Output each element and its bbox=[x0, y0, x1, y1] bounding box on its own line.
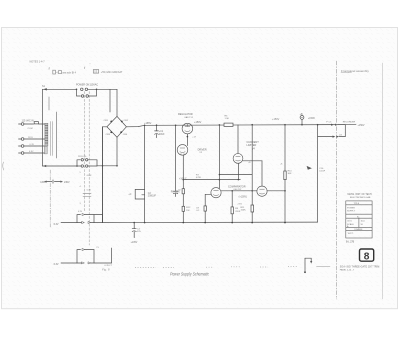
svg-text:0.1UF: 0.1UF bbox=[319, 171, 326, 173]
svg-text:6AS7 V1: 6AS7 V1 bbox=[185, 116, 194, 119]
driver tube V2 bbox=[177, 145, 188, 156]
svg-text:+150V: +150V bbox=[272, 118, 280, 121]
V2 cathode drop bbox=[182, 155, 184, 179]
wire arrow into S1 bbox=[43, 88, 47, 90]
label +150V bbox=[194, 121, 202, 124]
ganged switch dashed link bbox=[84, 92, 86, 212]
svg-text:CK D: CK D bbox=[347, 221, 352, 223]
node +165V bbox=[144, 122, 152, 125]
pilot group PL1 bbox=[54, 211, 103, 226]
svg-text:(+105V): (+105V) bbox=[239, 196, 247, 198]
connector J1 labels bbox=[22, 120, 35, 154]
label +150V right bbox=[272, 118, 280, 121]
switch S1 section C input bbox=[43, 165, 78, 167]
V4 plate to rail bbox=[237, 125, 239, 154]
sheet number 8 box bbox=[360, 249, 374, 263]
transformer T1 primary winding bbox=[45, 123, 48, 146]
switch S1 label bbox=[42, 84, 98, 88]
wire to bridge top bbox=[97, 88, 118, 90]
svg-text:20UF: 20UF bbox=[159, 134, 165, 136]
capacitor C1 bbox=[155, 124, 166, 137]
svg-text:Power Supply Schematic: Power Supply Schematic bbox=[170, 272, 209, 277]
jack J2 corner bbox=[304, 258, 312, 273]
divider line R11 bbox=[241, 124, 254, 223]
svg-text:W.P.T.: W.P.T. bbox=[348, 233, 354, 235]
svg-text:115VAC: 115VAC bbox=[90, 84, 99, 87]
label V1 bbox=[178, 113, 194, 119]
cathode network R13 bbox=[196, 194, 211, 222]
title block frame bbox=[346, 201, 372, 238]
wire tag 5 bbox=[80, 172, 92, 177]
series regulator tube V1 bbox=[182, 123, 193, 134]
svg-text:CR3: CR3 bbox=[106, 134, 111, 136]
svg-text:Frontpanel assembly: Frontpanel assembly bbox=[341, 69, 369, 73]
svg-text:+5% GM4 GM4%AT: +5% GM4 GM4%AT bbox=[101, 71, 123, 74]
switch S1 section A bbox=[76, 89, 78, 91]
transformer secondary lead bbox=[56, 112, 58, 158]
comparator plate line bbox=[219, 124, 221, 188]
output wire and arrows bbox=[317, 122, 365, 127]
svg-text:GRN: GRN bbox=[87, 175, 92, 177]
drawing number bbox=[346, 241, 355, 243]
ground return bottom rail bbox=[103, 222, 318, 224]
negative bus vertical bbox=[102, 127, 104, 223]
svg-text:CR4: CR4 bbox=[123, 134, 128, 136]
svg-text:230V: 230V bbox=[64, 181, 70, 184]
grid feed line bbox=[175, 125, 177, 191]
wire V4 grid tap bbox=[219, 174, 253, 176]
svg-text:100K: 100K bbox=[241, 209, 247, 211]
wire tag 4 bbox=[80, 186, 92, 191]
svg-text:NOTES 1-4-7: NOTES 1-4-7 bbox=[30, 61, 46, 64]
connector pin 1 bbox=[19, 123, 34, 126]
svg-text:1M: 1M bbox=[186, 210, 189, 212]
svg-text:1.5K: 1.5K bbox=[225, 118, 230, 120]
transformer core bbox=[51, 122, 53, 156]
label +105V node bbox=[239, 196, 247, 198]
node below V1 bbox=[187, 134, 197, 146]
capacitor C4 bbox=[131, 223, 142, 245]
label comparator bbox=[228, 185, 246, 191]
wire bridge right vertex to rail bbox=[126, 125, 144, 127]
reference divider R10 bbox=[280, 124, 292, 223]
output tap 2 arrows bbox=[318, 125, 346, 138]
svg-text:+165V: +165V bbox=[144, 122, 152, 125]
svg-text:220K: 220K bbox=[235, 211, 241, 213]
legend item 2 bbox=[90, 63, 123, 73]
svg-text:115 VAC IN: 115 VAC IN bbox=[22, 120, 35, 123]
comparator tube V3B bbox=[257, 186, 267, 196]
switch S1 section B bbox=[77, 89, 81, 96]
bridge rectifier CR1-CR4 bbox=[104, 116, 129, 137]
wire V3B plate to divider bbox=[267, 190, 286, 192]
svg-text:MASS. INST. OF TECH.: MASS. INST. OF TECH. bbox=[348, 193, 373, 196]
svg-text:2000UF: 2000UF bbox=[148, 196, 157, 198]
notes text top-left bbox=[30, 61, 46, 64]
svg-text:6.3V: 6.3V bbox=[54, 263, 59, 266]
sheet boundary dash-dot bbox=[335, 61, 337, 299]
svg-text:ana adn BI 4: ana adn BI 4 bbox=[62, 71, 76, 74]
wire bridge bottom vertex down bbox=[116, 137, 118, 166]
svg-text:+150V: +150V bbox=[308, 117, 315, 120]
svg-text:+B: +B bbox=[300, 113, 303, 116]
svg-text:+150V: +150V bbox=[194, 121, 202, 124]
V4 cathode down bbox=[237, 163, 239, 179]
svg-text:P 1.5: P 1.5 bbox=[326, 122, 332, 124]
svg-text:CR2: CR2 bbox=[124, 120, 129, 122]
svg-text:ELECTRONICS LAB: ELECTRONICS LAB bbox=[350, 196, 371, 199]
wire between comparator grids bbox=[221, 190, 257, 192]
title block header bbox=[348, 193, 373, 199]
svg-text:COMPARATOR: COMPARATOR bbox=[228, 185, 246, 188]
svg-text:+C: +C bbox=[128, 194, 131, 196]
svg-text:6.3V: 6.3V bbox=[87, 190, 92, 192]
label V2 bbox=[198, 148, 207, 154]
pilot group PL2 bbox=[54, 247, 113, 267]
transformer T1 secondary winding bbox=[44, 146, 47, 154]
svg-text:PANEL 2-14 - 7: PANEL 2-14 - 7 bbox=[340, 268, 355, 271]
bottom caption line 1 bbox=[340, 266, 380, 272]
top-right header text bbox=[341, 69, 369, 73]
svg-text:COM: COM bbox=[28, 128, 33, 130]
fuse F1 bbox=[34, 122, 38, 124]
svg-text:+C1: +C1 bbox=[159, 131, 164, 133]
switch S1 section C bbox=[77, 159, 97, 168]
wire stub to transformer bbox=[48, 97, 50, 110]
feedthrough plates bbox=[80, 194, 92, 205]
svg-text:SUPPLY: SUPPLY bbox=[347, 210, 356, 212]
current limiter tube V4 bbox=[233, 154, 243, 164]
svg-text:CR1: CR1 bbox=[104, 120, 109, 122]
caption dash row bbox=[317, 265, 331, 267]
svg-text:470K: 470K bbox=[196, 177, 202, 179]
connector pin 4 bbox=[19, 152, 45, 155]
connector pin 2 bbox=[19, 138, 45, 141]
title block texts bbox=[347, 203, 366, 235]
figure caption dashes bbox=[102, 268, 110, 272]
svg-text:115V 60~: 115V 60~ bbox=[78, 156, 88, 158]
svg-text:REGULATOR: REGULATOR bbox=[178, 113, 193, 116]
connector pin 3 bbox=[19, 145, 45, 148]
ganged switch dashed link 2 bbox=[88, 92, 90, 246]
svg-text:+105V: +105V bbox=[131, 242, 138, 244]
grid bias R9 bbox=[231, 190, 243, 223]
wire bridge left vertex to bus bbox=[103, 126, 107, 128]
svg-text:DRIVER: DRIVER bbox=[198, 148, 207, 151]
comparator tube V3A bbox=[211, 188, 221, 198]
svg-text:6.3V: 6.3V bbox=[78, 211, 83, 213]
wire left return bbox=[43, 88, 47, 90]
svg-text:B-L 27B: B-L 27B bbox=[346, 241, 355, 243]
svg-text:DRAWN: DRAWN bbox=[355, 228, 363, 231]
output terminal TP1 bbox=[300, 113, 316, 126]
svg-text:RECORDER: RECORDER bbox=[343, 122, 356, 124]
svg-text:8: 8 bbox=[364, 252, 370, 263]
label current limiter bbox=[247, 141, 260, 150]
svg-text:+95V: +95V bbox=[237, 203, 242, 205]
wire stub bbox=[109, 89, 111, 112]
resistor R12 bbox=[182, 194, 191, 223]
chassis dash-dot line bbox=[49, 170, 51, 228]
svg-text:SOA-I BO THREE-GATE CKT TRIM: SOA-I BO THREE-GATE CKT TRIM bbox=[340, 266, 380, 269]
capacitor C8 bbox=[173, 189, 181, 196]
svg-text:6.3V: 6.3V bbox=[54, 223, 59, 226]
page fold mark left bbox=[3, 162, 4, 170]
wire S1C out bbox=[97, 165, 118, 167]
title block row lines bbox=[346, 205, 372, 231]
wire fuse to primary bbox=[39, 123, 45, 125]
legend item 1 bbox=[49, 67, 85, 75]
svg-text:30K: 30K bbox=[288, 173, 292, 175]
voltage strap note bbox=[40, 180, 70, 184]
resistor R6 on rail bbox=[224, 116, 233, 127]
label R7 bbox=[196, 175, 202, 179]
filter column C2 bbox=[128, 125, 156, 222]
tie point arrow C10 bbox=[307, 166, 326, 173]
svg-text:+150V: +150V bbox=[358, 124, 365, 127]
wire +105 node bbox=[179, 177, 240, 180]
svg-text:R8 470K: R8 470K bbox=[171, 192, 180, 194]
svg-text:LIMITER: LIMITER bbox=[247, 144, 257, 147]
svg-text:POWER: POWER bbox=[347, 208, 355, 210]
main B+ rail bbox=[145, 124, 346, 127]
return line right bbox=[317, 125, 319, 222]
resistor R8 bbox=[171, 180, 185, 194]
svg-text:POWER ON: POWER ON bbox=[76, 84, 90, 87]
svg-text:Fig. 8: Fig. 8 bbox=[102, 268, 110, 272]
wire bridge top feed bbox=[116, 89, 118, 116]
wire V4 to V3B bbox=[243, 161, 262, 186]
svg-text:TITLE: TITLE bbox=[354, 203, 360, 205]
label S1C bbox=[78, 156, 88, 158]
sheet right edge line bbox=[381, 63, 383, 299]
